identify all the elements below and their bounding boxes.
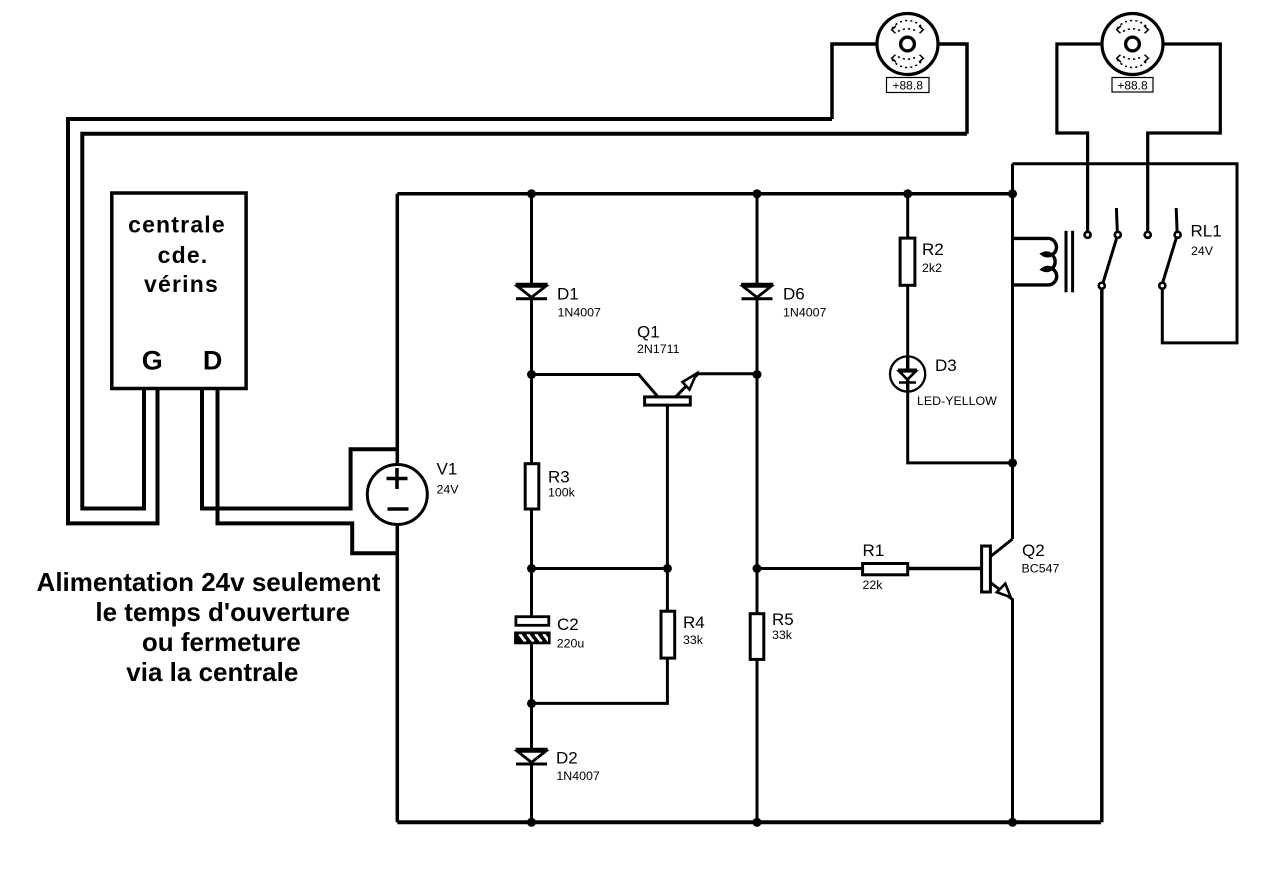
wire inner loop G to motor1 right	[82, 134, 967, 509]
wire outer loop G to motor1 left	[68, 119, 832, 523]
wire R3 to C2	[530, 509, 533, 617]
junction Q2 emitter at bottom bus	[1008, 818, 1017, 827]
junction R5 top / R1 left node	[753, 564, 762, 573]
wire motor1 right lead	[938, 44, 967, 134]
wire top bus	[397, 192, 1012, 196]
wire D1 to Q1 collector node	[530, 299, 533, 464]
svg-text:centrale: centrale	[128, 212, 226, 238]
svg-text:V1: V1	[437, 460, 458, 479]
svg-text:+88.8: +88.8	[893, 79, 924, 93]
wire R1 to Q2 base	[908, 567, 982, 571]
svg-text:+88.8: +88.8	[1117, 79, 1148, 93]
diode D1	[516, 285, 601, 320]
svg-text:220u: 220u	[557, 637, 585, 651]
wire motor2 right to relay contact	[1148, 44, 1221, 232]
svg-text:D2: D2	[556, 749, 578, 768]
svg-text:100k: 100k	[548, 486, 576, 500]
svg-text:33k: 33k	[683, 633, 704, 647]
svg-text:vérins: vérins	[144, 271, 219, 297]
svg-text:R5: R5	[772, 610, 794, 629]
svg-text:cde.: cde.	[158, 242, 209, 268]
resistor R4	[661, 611, 705, 658]
relay contact switch 2	[1145, 208, 1181, 289]
svg-text:R2: R2	[922, 240, 944, 259]
meter display M2	[1112, 78, 1153, 93]
wire R1 left	[757, 567, 863, 570]
motor M1	[877, 14, 938, 75]
wire mid horizontal R3/C2 node to Q1 base	[532, 567, 668, 570]
resistor R2	[900, 238, 944, 285]
wire R2 top	[906, 194, 909, 238]
wire D6 to R5	[756, 299, 759, 614]
wire switch1 common to bottom bus	[1100, 289, 1104, 823]
svg-text:ou fermeture: ou fermeture	[142, 627, 301, 657]
block centrale cde. verins	[112, 193, 246, 389]
wire D6 column top	[756, 194, 759, 284]
diode D6	[741, 285, 826, 320]
wire C2 to D2	[530, 644, 533, 749]
wire Q1 base to R4	[666, 569, 669, 612]
resistor R3	[525, 464, 575, 509]
wire D right pin to V1 minus	[218, 389, 398, 554]
svg-text:R1: R1	[863, 541, 885, 560]
battery V1	[367, 460, 459, 525]
wire motor1 left lead	[832, 44, 877, 119]
svg-text:le temps d'ouverture: le temps d'ouverture	[95, 597, 350, 627]
wire V1 top column	[396, 194, 400, 465]
transistor Q1	[532, 323, 758, 569]
svg-text:Q1: Q1	[637, 323, 660, 342]
junction Q1 collector node	[527, 370, 536, 379]
svg-text:D: D	[203, 346, 223, 376]
resistor R5	[750, 610, 794, 659]
relay contact switch 1	[1085, 208, 1121, 289]
motor M2	[1102, 14, 1163, 75]
wire V1 bottom column	[396, 524, 400, 822]
svg-text:Alimentation 24v seulement: Alimentation 24v seulement	[37, 567, 381, 597]
relay RL1 coil	[1013, 222, 1222, 293]
wire D1 column top	[530, 194, 533, 284]
svg-text:RL1: RL1	[1191, 222, 1222, 241]
junction D3 cathode to relay column	[1008, 458, 1017, 467]
meter display M1	[887, 78, 930, 93]
transistor Q2	[982, 539, 1060, 822]
svg-text:R4: R4	[683, 613, 705, 632]
svg-text:LED-YELLOW: LED-YELLOW	[917, 394, 997, 408]
svg-text:D1: D1	[557, 285, 579, 304]
wire motor2 left to relay contact	[1057, 44, 1102, 232]
wire R5 to bottom bus	[756, 659, 759, 822]
svg-text:G: G	[142, 346, 163, 376]
junction relay branch at top bus	[1008, 189, 1017, 198]
wire R4 bottom to C2 bottom node	[532, 658, 668, 703]
junction D2 cathode at bottom bus	[527, 818, 536, 827]
wire D3 to relay column	[908, 392, 1013, 463]
svg-text:24V: 24V	[1191, 244, 1214, 258]
wire relay column	[1011, 164, 1014, 539]
svg-text:BC547: BC547	[1022, 562, 1060, 576]
svg-text:D6: D6	[783, 285, 805, 304]
junction D6 anode at top bus	[753, 189, 762, 198]
svg-text:1N4007: 1N4007	[558, 306, 602, 320]
capacitor C2	[515, 615, 584, 651]
junction R2 top at top bus	[903, 189, 912, 198]
wire relay top loop	[1013, 164, 1238, 343]
wire D left pin to V1 plus	[202, 389, 397, 509]
wire bottom bus	[397, 820, 1101, 824]
svg-text:2k2: 2k2	[922, 261, 942, 275]
svg-text:R3: R3	[548, 468, 570, 487]
junction R5 bottom at bottom bus	[753, 818, 762, 827]
svg-text:via la centrale: via la centrale	[126, 657, 298, 687]
resistor R1	[863, 541, 908, 592]
wire D2 to bottom bus	[530, 764, 533, 822]
junction C2 bottom / R4 bottom node	[527, 699, 536, 708]
junction D1 anode at top bus	[527, 189, 536, 198]
svg-text:1N4007: 1N4007	[556, 769, 600, 783]
annotation text	[37, 567, 381, 687]
junction R3 bottom / C2 top node	[527, 564, 536, 573]
svg-text:Q2: Q2	[1022, 541, 1045, 560]
svg-text:1N4007: 1N4007	[783, 306, 827, 320]
LED D3	[890, 356, 997, 408]
junction Q1 emitter node	[753, 370, 762, 379]
svg-text:D3: D3	[935, 356, 957, 375]
junction Q1 base / R4 top node	[663, 564, 672, 573]
svg-text:33k: 33k	[772, 628, 793, 642]
svg-text:C2: C2	[557, 615, 579, 634]
svg-text:24V: 24V	[437, 483, 460, 497]
diode D2	[516, 749, 600, 784]
svg-text:2N1711: 2N1711	[637, 342, 680, 356]
svg-text:22k: 22k	[863, 578, 884, 592]
wire R2 to D3	[906, 285, 909, 358]
